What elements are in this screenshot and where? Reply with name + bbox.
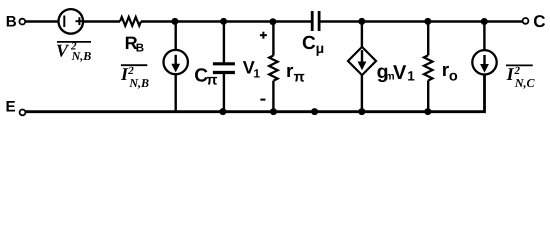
label V1 xyxy=(243,58,261,81)
plus mark V1 xyxy=(260,32,267,39)
junction node 2 xyxy=(220,18,227,25)
resistor rpi xyxy=(269,56,278,81)
node C xyxy=(523,12,546,31)
svg-text:B: B xyxy=(6,14,17,31)
capacitor Cpi xyxy=(213,64,235,73)
wire down to INB source xyxy=(174,22,176,51)
wire Cmu to node C xyxy=(321,20,523,22)
label Cmu xyxy=(302,33,324,56)
voltage source VNB xyxy=(59,9,84,34)
svg-text:B: B xyxy=(136,43,144,55)
wire voltage source to RB xyxy=(83,20,120,22)
wire RB to Cmu xyxy=(141,20,311,22)
junction node 9 xyxy=(311,108,318,115)
wire down to rpi xyxy=(272,22,274,56)
label gmV1 xyxy=(377,61,416,84)
svg-text:1: 1 xyxy=(407,69,415,84)
junction node 10 xyxy=(358,108,365,115)
current source INC xyxy=(472,50,496,74)
label rO xyxy=(442,60,458,84)
junction node 5 xyxy=(424,18,431,25)
wire INB source to bottom rail xyxy=(174,74,176,112)
label Cpi xyxy=(194,65,217,88)
wire gmV1 to bottom rail xyxy=(361,74,363,112)
dependent source gmV1 xyxy=(348,47,376,75)
svg-text:N,B: N,B xyxy=(71,49,92,63)
resistor rO xyxy=(424,55,433,80)
wire down to Cpi xyxy=(223,22,225,64)
svg-text:μ: μ xyxy=(316,40,325,56)
label rpi xyxy=(286,61,305,85)
junction node 4 xyxy=(358,18,365,25)
junction node 3 xyxy=(269,18,276,25)
node E xyxy=(6,99,26,116)
junction node 1 xyxy=(171,18,178,25)
svg-text:V: V xyxy=(393,62,407,84)
label RB xyxy=(125,33,145,55)
svg-text:V: V xyxy=(56,40,70,60)
svg-text:π: π xyxy=(294,69,305,85)
svg-text:π: π xyxy=(206,73,217,89)
junction node 8 xyxy=(270,108,277,115)
wire down to rO xyxy=(427,22,429,56)
svg-text:C: C xyxy=(302,33,316,54)
svg-text:N,C: N,C xyxy=(514,76,536,90)
node B xyxy=(6,14,25,31)
wire B to voltage source xyxy=(25,20,57,22)
svg-text:I: I xyxy=(506,64,515,84)
bottom rail wire E to INC xyxy=(25,74,484,112)
minus mark V1 xyxy=(260,99,265,101)
junction node 6 xyxy=(481,18,488,25)
label VNB xyxy=(56,40,91,62)
svg-text:1: 1 xyxy=(253,67,260,81)
svg-text:N,B: N,B xyxy=(128,76,149,90)
svg-text:o: o xyxy=(449,68,458,84)
wire rpi to bottom rail xyxy=(272,81,274,112)
wire down to gmV1 source xyxy=(361,22,363,48)
current source INB xyxy=(164,50,188,74)
junction node 7 xyxy=(219,108,226,115)
wire Cpi to bottom rail xyxy=(223,73,225,112)
wire down to INC source xyxy=(483,22,485,51)
resistor RB xyxy=(120,17,141,26)
label INC xyxy=(506,64,536,90)
label INB xyxy=(120,64,149,90)
junction node 11 xyxy=(424,108,431,115)
wire rO to bottom rail xyxy=(427,81,429,112)
capacitor Cmu xyxy=(312,11,319,31)
svg-text:C: C xyxy=(533,12,545,31)
svg-text:E: E xyxy=(6,99,16,116)
